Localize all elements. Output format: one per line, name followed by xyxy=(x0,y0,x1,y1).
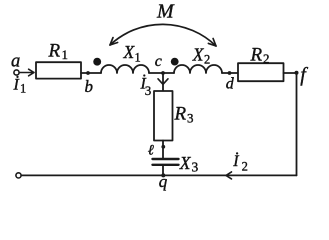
node q xyxy=(161,173,165,177)
wire bottom xyxy=(21,174,296,176)
svg-text:2: 2 xyxy=(204,53,210,67)
svg-text:R: R xyxy=(48,41,61,62)
terminal bottom left xyxy=(16,173,21,178)
node b xyxy=(86,71,90,75)
svg-text:1: 1 xyxy=(20,82,26,96)
wire f segment xyxy=(284,72,297,74)
label I3 xyxy=(140,74,152,98)
svg-text:2: 2 xyxy=(263,51,270,66)
resistor R3 xyxy=(154,91,173,141)
terminal a xyxy=(14,70,19,75)
svg-text:3: 3 xyxy=(145,83,152,98)
svg-text:X: X xyxy=(192,45,205,65)
label I1 xyxy=(13,76,27,96)
label X2 xyxy=(192,45,210,67)
polarity dot X1 xyxy=(93,58,101,66)
label R3 xyxy=(174,104,194,126)
resistor R1 xyxy=(36,62,81,78)
polarity dot X2 xyxy=(171,58,179,66)
wire d segment xyxy=(222,72,238,74)
wire b segment xyxy=(81,72,101,74)
wire middle branch upper xyxy=(162,73,164,91)
label R2 xyxy=(250,45,270,67)
wire right vertical xyxy=(296,73,298,175)
wire capacitor to bottom xyxy=(162,165,164,176)
svg-text:R: R xyxy=(174,104,187,125)
current arrow I3 xyxy=(158,79,168,85)
svg-text:2: 2 xyxy=(242,160,248,174)
svg-text:X: X xyxy=(179,153,192,173)
current arrow I1 xyxy=(20,69,34,76)
svg-text:I: I xyxy=(232,153,239,170)
mutual inductance arc M xyxy=(110,24,216,46)
node d xyxy=(228,71,232,75)
svg-text:M: M xyxy=(156,1,175,23)
svg-text:1: 1 xyxy=(62,47,69,62)
node f xyxy=(295,71,299,75)
svg-text:ℓ: ℓ xyxy=(148,143,154,159)
svg-text:R: R xyxy=(250,45,263,66)
label I2 xyxy=(232,152,248,173)
node l xyxy=(161,145,165,149)
svg-text:a: a xyxy=(11,52,20,72)
svg-text:I: I xyxy=(13,77,20,94)
svg-text:b: b xyxy=(85,77,94,96)
wire c segment xyxy=(149,72,174,74)
resistor R2 xyxy=(238,63,284,81)
label X1 xyxy=(123,42,141,65)
svg-text:1: 1 xyxy=(135,51,141,65)
inductor X1 xyxy=(101,65,149,73)
svg-text:3: 3 xyxy=(187,111,194,126)
wire middle branch lower xyxy=(162,141,164,160)
label R1 xyxy=(48,41,69,63)
inductor X2 xyxy=(174,65,222,73)
label X3 xyxy=(179,153,199,175)
node c xyxy=(161,71,165,75)
capacitor X3 xyxy=(153,159,179,165)
svg-text:d: d xyxy=(226,76,235,93)
svg-text:3: 3 xyxy=(192,160,199,175)
current arrow I2 xyxy=(226,172,232,179)
svg-text:c: c xyxy=(155,53,162,70)
